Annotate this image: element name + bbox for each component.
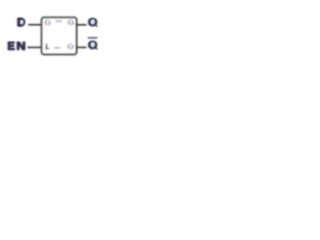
inner label mark bottom (54, 47, 60, 48)
D latch body U1 (42, 17, 77, 54)
inner label mark top (55, 21, 62, 23)
background (0, 0, 119, 71)
wire Qbar output (76, 47, 86, 49)
label Qbar (88, 40, 97, 52)
pin node D (top-left) (45, 20, 51, 25)
pin node EN marker (bottom-left) (46, 44, 49, 50)
soft-rendered D latch schematic (canvas overlay) (0, 0, 119, 71)
overline of Qbar (88, 37, 98, 38)
label Q (88, 17, 97, 29)
label D (17, 17, 25, 29)
pin node Q (top-right) (68, 20, 74, 25)
wire D input (28, 24, 41, 26)
wire EN input (28, 47, 42, 49)
wire Q output (76, 24, 86, 26)
label EN (8, 39, 26, 52)
pin node Qbar (bottom-right) (68, 44, 74, 49)
